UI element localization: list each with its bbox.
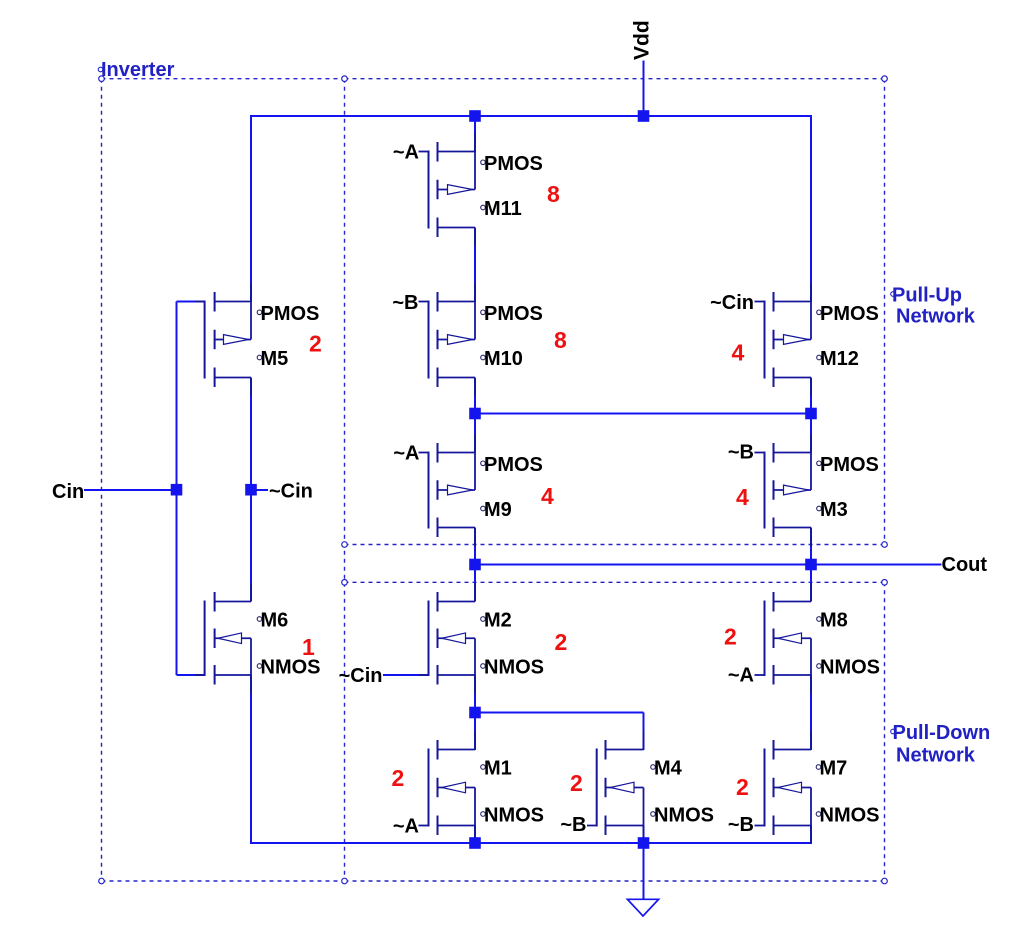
region label Pull-Down Network with pin dot [891, 729, 896, 734]
svg-text:M8: M8 [820, 610, 848, 632]
svg-text:2: 2 [309, 330, 322, 356]
wire: mid rail between pull-up branches [475, 413, 811, 415]
dashed box Inverter: right edge (shared with networks) [344, 79, 346, 881]
wire: top rail left drop to M5 drain [250, 115, 252, 302]
wire: gate column to M6 gate [177, 674, 206, 676]
svg-text:~B: ~B [560, 814, 586, 836]
ground symbol [627, 899, 658, 916]
node: Cout right junction [805, 559, 817, 571]
svg-text:~Cin: ~Cin [710, 292, 754, 314]
svg-text:PMOS: PMOS [484, 454, 543, 476]
svg-text:~B: ~B [728, 442, 754, 464]
wire: M12 source to M3 drain through mid node [810, 378, 812, 453]
wire: M11 source to M10 drain [474, 228, 476, 303]
svg-text:2: 2 [736, 774, 749, 800]
svg-text:~A: ~A [393, 816, 419, 838]
svg-text:M12: M12 [820, 348, 859, 370]
svg-text:M5: M5 [261, 348, 289, 370]
labels PMOS / M10 with pin dots [481, 303, 543, 370]
wire: ground lead below bottom rail [643, 843, 645, 899]
svg-text:M11: M11 [484, 198, 522, 220]
svg-text:2: 2 [555, 629, 568, 655]
node: mid rail right [805, 408, 817, 420]
svg-text:NMOS: NMOS [820, 805, 880, 827]
wire: drop into M4 drain [643, 713, 645, 751]
wire: M2 source to M1 drain [474, 675, 476, 750]
wire: M9 source down to M2 drain through Cout node [474, 528, 476, 602]
svg-text:2: 2 [724, 624, 737, 650]
svg-text:M4: M4 [654, 758, 683, 780]
node: M2 source / M1 drain junction [469, 707, 481, 719]
node: Vdd entry on top rail [638, 110, 650, 122]
svg-text:~B: ~B [728, 814, 754, 836]
labels M1 / NMOS with pin dots [481, 758, 544, 827]
wire: Cin node to gate column [176, 302, 178, 676]
wire: top rail drop to M11 drain [474, 116, 476, 152]
dashed box Pull-Down Network: right edge [884, 582, 886, 881]
wire: Cout output rail [475, 564, 942, 566]
region label Pull-Up Network with pin dot [891, 292, 896, 297]
transistor M12 PMOS [755, 283, 812, 396]
dashed box Inverter: left edge [101, 79, 103, 881]
wire: top rail right drop to M12 drain [810, 116, 812, 302]
node: Vdd rail / M11 drain [469, 110, 481, 122]
labels PMOS / M9 with pin dots [481, 454, 543, 521]
svg-text:Cin: Cin [52, 481, 84, 503]
node: bottom rail / ground junction [638, 837, 650, 849]
labels M6 / NMOS with pin dots [257, 610, 320, 679]
labels M8 / NMOS with pin dots [817, 610, 880, 679]
svg-text:~A: ~A [393, 443, 419, 465]
svg-text:4: 4 [732, 340, 745, 366]
wire: M10 source to M9 drain through mid node [474, 378, 476, 453]
svg-text:NMOS: NMOS [484, 657, 544, 679]
dashed box Pull-Up Network: bottom edge [345, 544, 885, 546]
svg-text:NMOS: NMOS [654, 805, 714, 827]
svg-text:~A: ~A [393, 142, 419, 164]
svg-text:Network: Network [896, 306, 976, 328]
labels PMOS / M12 with pin dots [817, 303, 879, 370]
svg-text:1: 1 [302, 634, 315, 660]
svg-text:~Cin: ~Cin [339, 665, 383, 687]
transistor M5 PMOS (inverter pull-up) [195, 283, 252, 396]
wire: Vdd lead down to top rail [643, 61, 645, 117]
wire: M1 source to bottom rail [474, 826, 476, 844]
labels PMOS / M5 with pin dots [257, 303, 319, 370]
node: bottom rail / M1 source [469, 837, 481, 849]
svg-text:4: 4 [541, 483, 554, 509]
node: ~Cin inverter output node [245, 484, 257, 496]
wire: M3 source down to M8 drain through Cout node [810, 528, 812, 602]
transistor M3 PMOS [755, 434, 812, 546]
transistor M8 NMOS [755, 583, 812, 694]
wire: ~Cin node stub to label [251, 489, 268, 491]
svg-text:NMOS: NMOS [820, 657, 880, 679]
svg-text:M7: M7 [820, 758, 848, 780]
labels PMOS / M3 with pin dots [817, 454, 879, 521]
transistor M1 NMOS [419, 731, 476, 844]
transistor M4 NMOS [587, 731, 644, 844]
dashed box Inverter: bottom edge [102, 880, 345, 882]
svg-text:PMOS: PMOS [820, 454, 879, 476]
svg-text:8: 8 [554, 327, 567, 353]
svg-text:M10: M10 [484, 348, 523, 370]
svg-text:Inverter: Inverter [101, 59, 175, 81]
wire: M5 source to ~Cin node to M6 drain [250, 378, 252, 602]
svg-text:~A: ~A [728, 665, 754, 687]
wire: branch from M2/M1 junction to M4 drain [474, 712, 644, 714]
svg-text:8: 8 [547, 181, 560, 207]
wire: bottom ground rail [250, 842, 811, 844]
svg-text:~Cin: ~Cin [269, 481, 313, 503]
svg-text:PMOS: PMOS [484, 303, 543, 325]
node: mid rail left [469, 408, 481, 420]
wire: gate column to M5 gate [177, 301, 206, 303]
svg-text:M2: M2 [484, 610, 512, 632]
svg-text:Pull-Down: Pull-Down [893, 722, 991, 744]
svg-text:4: 4 [736, 484, 749, 510]
dashed box Pull-Down Network: bottom edge [345, 880, 885, 882]
svg-text:Vdd: Vdd [631, 20, 654, 60]
svg-text:2: 2 [392, 765, 405, 791]
svg-text:M3: M3 [820, 499, 848, 521]
dashed box Inverter: top edge [102, 78, 345, 80]
labels M4 / NMOS with pin dots [651, 758, 714, 827]
wire: M6 source down to bottom rail [250, 675, 252, 844]
transistor M11 PMOS [419, 133, 476, 246]
node: Cout left junction [469, 559, 481, 571]
transistor M7 NMOS [755, 731, 812, 844]
svg-text:Network: Network [896, 744, 976, 766]
labels M2 / NMOS with pin dots [481, 610, 544, 679]
labels M7 / NMOS with pin dots [816, 758, 879, 827]
svg-text:PMOS: PMOS [484, 153, 543, 175]
box corner markers [99, 76, 888, 884]
svg-text:PMOS: PMOS [261, 303, 320, 325]
wire: M7 source to bottom rail [810, 826, 812, 844]
dashed box Pull-Up Network: right edge [884, 79, 886, 545]
svg-text:Pull-Up: Pull-Up [892, 285, 962, 307]
svg-text:NMOS: NMOS [484, 805, 544, 827]
wire: M4 source to bottom rail [643, 826, 645, 844]
wire: ~Cin feed to M2 gate [383, 674, 429, 676]
wire: Vdd top rail [250, 115, 812, 117]
transistor M2 NMOS [419, 583, 476, 694]
transistor M6 NMOS (inverter pull-down) [195, 583, 252, 694]
transistor M10 PMOS [419, 283, 476, 396]
svg-text:M1: M1 [484, 758, 512, 780]
labels PMOS / M11 with pin dots [481, 153, 543, 220]
region label Inverter with pin dot [98, 67, 103, 72]
svg-text:M6: M6 [261, 610, 289, 632]
svg-text:~B: ~B [392, 292, 418, 314]
transistor M9 PMOS [419, 434, 476, 546]
wire: M8 source to M7 drain [810, 675, 812, 750]
svg-text:Cout: Cout [942, 554, 988, 576]
svg-text:M9: M9 [484, 499, 512, 521]
dashed box Pull-Down Network: top edge [345, 581, 885, 583]
dashed box Pull-Up Network: top edge [345, 78, 885, 80]
node: Cin input node [171, 484, 183, 496]
wire: Cin input lead [84, 489, 177, 491]
svg-text:PMOS: PMOS [820, 303, 879, 325]
svg-text:2: 2 [570, 770, 583, 796]
